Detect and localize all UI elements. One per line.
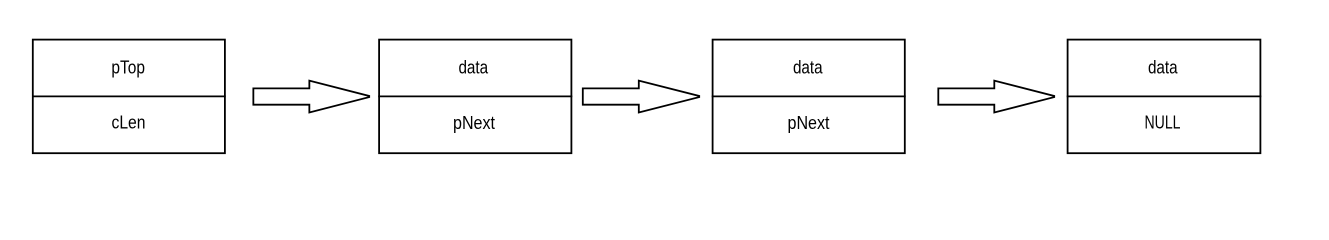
svg-text:NULL: NULL	[1145, 113, 1181, 133]
node box 4 (tail node)	[1068, 40, 1261, 154]
arrow 2	[583, 81, 699, 113]
svg-text:cLen: cLen	[112, 113, 146, 133]
node box 4 divider	[1067, 95, 1262, 97]
svg-text:pTop: pTop	[111, 57, 145, 77]
node box 3	[713, 40, 905, 154]
svg-text:data: data	[793, 57, 824, 77]
svg-text:data: data	[1148, 57, 1179, 77]
svg-text:pNext: pNext	[453, 113, 495, 133]
node box 1 (head node)	[33, 40, 225, 154]
node box 1 divider	[32, 95, 226, 97]
arrow 1	[253, 81, 369, 113]
node box 3 divider	[712, 95, 906, 97]
svg-text:data: data	[458, 57, 489, 77]
node box 2	[379, 40, 571, 154]
arrow 3	[938, 81, 1054, 113]
svg-text:pNext: pNext	[788, 113, 830, 133]
node box 2 divider	[378, 95, 572, 97]
